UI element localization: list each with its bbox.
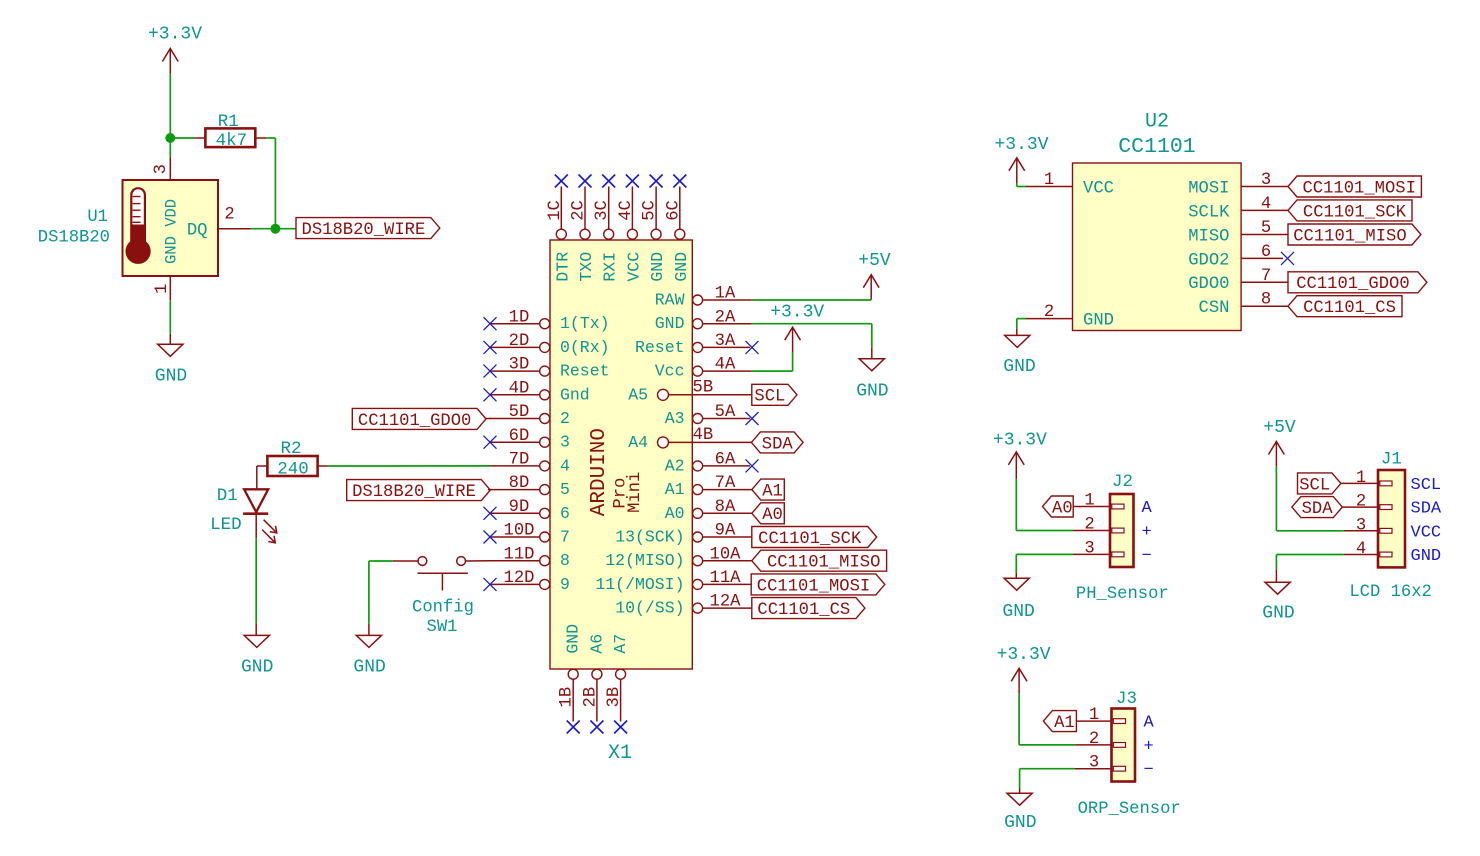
svg-text:6: 6 <box>560 504 570 523</box>
wire U2 VCC to +3.3V <box>1017 183 1026 187</box>
svg-text:GND: GND <box>1003 357 1035 377</box>
svg-text:A5: A5 <box>628 385 648 404</box>
svg-text:12D: 12D <box>504 569 535 588</box>
svg-text:+: + <box>1144 737 1154 756</box>
svg-text:4: 4 <box>560 456 570 475</box>
U2 pin 5 (MISO) <box>1188 219 1288 246</box>
svg-text:A0: A0 <box>762 506 783 525</box>
U2 pin 2 (GND) <box>1026 303 1114 331</box>
svg-text:GDO0: GDO0 <box>1188 275 1229 294</box>
svg-text:3D: 3D <box>509 356 530 375</box>
wire SW1 to GND <box>369 561 393 635</box>
svg-text:+3.3V: +3.3V <box>770 303 824 323</box>
resistor R2 <box>257 439 328 480</box>
svg-text:SCL: SCL <box>754 388 785 407</box>
resistor R1 <box>194 112 266 151</box>
svg-text:2: 2 <box>1084 516 1094 535</box>
X1 pin 7A (A1) <box>665 474 752 499</box>
wire J2 pin2 to +3.3V <box>1016 479 1110 531</box>
svg-text:GND: GND <box>353 658 385 678</box>
svg-text:Reset: Reset <box>635 338 685 357</box>
svg-text:4k7: 4k7 <box>216 131 248 151</box>
svg-text:DS18B20_WIRE: DS18B20_WIRE <box>302 221 426 240</box>
connector J2 PH_Sensor <box>1076 472 1169 604</box>
svg-text:2: 2 <box>1356 493 1366 512</box>
svg-text:PH_Sensor: PH_Sensor <box>1076 585 1169 604</box>
svg-text:10D: 10D <box>504 522 535 541</box>
X1 pin 8D (5) <box>490 474 570 499</box>
svg-text:4D: 4D <box>509 379 530 398</box>
svg-text:DS18B20_WIRE: DS18B20_WIRE <box>352 483 476 502</box>
U2 pin 3 (MOSI) <box>1188 171 1288 198</box>
LED D1 <box>210 486 277 543</box>
wire J2 pin3 to ground <box>1016 554 1110 578</box>
ground right of Arduino <box>856 359 888 402</box>
svg-text:MISO: MISO <box>1188 227 1229 246</box>
svg-text:5D: 5D <box>509 403 530 422</box>
X1 pin 12A (10(/SS)) <box>615 593 752 618</box>
svg-text:9: 9 <box>560 575 570 594</box>
svg-text:1B: 1B <box>558 687 577 708</box>
svg-text:5: 5 <box>1261 219 1271 238</box>
svg-text:CC1101_CS: CC1101_CS <box>1303 299 1396 318</box>
wire J1 pin3 to +5V <box>1276 466 1378 530</box>
power flag +3.3V (U2) <box>994 135 1048 183</box>
svg-text:GND: GND <box>1411 547 1442 566</box>
svg-text:GND: GND <box>241 658 273 678</box>
connector J1 LCD 16x2 <box>1349 450 1442 603</box>
svg-text:A: A <box>1142 499 1153 518</box>
U2 pin 1 (VCC) <box>1026 171 1114 198</box>
svg-text:CC1101_MISO: CC1101_MISO <box>767 554 880 573</box>
svg-text:5B: 5B <box>693 378 714 397</box>
svg-text:SDA: SDA <box>1302 500 1334 519</box>
X1 pin 2A (GND) <box>655 308 752 333</box>
power flag +5V (RAW) <box>858 251 891 299</box>
svg-text:J2: J2 <box>1112 472 1133 492</box>
global label CC1101_MISO (10A) <box>752 550 887 572</box>
global label CC1101_GDO0 (U2) <box>1288 272 1427 294</box>
svg-text:A7: A7 <box>611 634 630 654</box>
svg-text:CC1101_MOSI: CC1101_MOSI <box>1302 179 1415 198</box>
ground below SW1 <box>353 635 385 677</box>
svg-text:VCC: VCC <box>624 252 643 282</box>
svg-text:1: 1 <box>1044 171 1054 190</box>
svg-text:CC1101_CS: CC1101_CS <box>757 601 850 620</box>
svg-text:4: 4 <box>1261 195 1271 214</box>
svg-text:240: 240 <box>277 459 309 479</box>
svg-text:7D: 7D <box>509 451 530 470</box>
X1 pin 4C (VCC) <box>617 175 644 282</box>
svg-text:1: 1 <box>153 284 172 294</box>
wire junction to R1 <box>170 137 194 139</box>
svg-text:6D: 6D <box>509 427 530 446</box>
svg-text:A1: A1 <box>762 483 783 502</box>
connector J3 ORP_Sensor <box>1078 689 1181 819</box>
X1 pin 9A (13(SCK)) <box>615 522 752 547</box>
ground below U1 <box>155 344 187 386</box>
svg-text:Mini: Mini <box>626 472 645 513</box>
global label A1 (7A) <box>752 479 785 501</box>
X1 pin 4D (Gnd) <box>484 379 590 404</box>
svg-text:GND: GND <box>1262 603 1294 623</box>
svg-text:J3: J3 <box>1116 689 1137 709</box>
global label CC1101_CS (U2) <box>1288 296 1402 318</box>
ground below J2 <box>1002 578 1034 622</box>
svg-text:CC1101_GDO0: CC1101_GDO0 <box>358 412 471 431</box>
svg-text:U1: U1 <box>87 208 108 227</box>
global label CC1101_MISO (U2) <box>1288 224 1421 246</box>
svg-text:GND: GND <box>648 252 667 282</box>
svg-text:3: 3 <box>152 164 171 174</box>
X1 pin 5C (GND) <box>641 175 668 282</box>
svg-text:+5V: +5V <box>858 251 891 271</box>
svg-text:DQ: DQ <box>187 221 208 240</box>
X1 pin 11A (11(/MOSI)) <box>595 569 751 594</box>
ground below U2 pin 2 <box>1003 335 1035 377</box>
X1 pin 3B (A7) <box>605 634 630 734</box>
svg-text:SCL: SCL <box>1411 476 1442 495</box>
X1 pin 2C (TXO) <box>570 175 597 282</box>
svg-text:GND VDD: GND VDD <box>162 199 180 264</box>
svg-text:6C: 6C <box>664 200 683 221</box>
power flag +3.3V (J3) <box>997 645 1051 693</box>
svg-text:VCC: VCC <box>1411 523 1442 542</box>
X1 pin 5D (2) <box>490 403 570 428</box>
svg-text:1: 1 <box>1356 469 1366 488</box>
X1 pin 11D (8) <box>490 545 570 570</box>
X1 pin 5B (A5) <box>628 378 752 404</box>
X1 pin 8A (A0) <box>665 498 752 523</box>
svg-text:8: 8 <box>560 551 570 570</box>
svg-text:A2: A2 <box>665 456 685 475</box>
svg-text:−: − <box>1142 547 1152 566</box>
svg-text:GND: GND <box>1083 312 1114 331</box>
global label A0 (J2) <box>1043 496 1111 518</box>
global label A0 (8A) <box>752 503 785 525</box>
svg-text:0(Rx): 0(Rx) <box>560 338 610 357</box>
svg-text:Config: Config <box>412 599 474 618</box>
global label SDA (A4) <box>751 432 803 454</box>
svg-text:SCLK: SCLK <box>1188 203 1230 222</box>
svg-text:ORP_Sensor: ORP_Sensor <box>1078 800 1181 819</box>
X1 pin 7D (4) <box>490 451 570 476</box>
U2 pin 4 (SCLK) <box>1188 195 1288 222</box>
svg-text:8D: 8D <box>509 474 530 493</box>
X1 pin 3D (Reset) <box>484 356 610 381</box>
svg-text:Reset: Reset <box>560 362 610 381</box>
svg-text:8: 8 <box>1261 291 1271 310</box>
global label A1 (J3) <box>1043 711 1111 733</box>
global label DS18B20_WIRE (to pin 8D) <box>347 480 491 502</box>
svg-text:GND: GND <box>564 624 583 654</box>
svg-text:DTR: DTR <box>553 252 572 282</box>
svg-text:ARDUINO: ARDUINO <box>588 428 611 516</box>
X1 pin 1A (RAW) <box>655 285 752 310</box>
svg-text:CSN: CSN <box>1199 299 1230 318</box>
global label SDA (J1) <box>1292 497 1378 519</box>
svg-text:+3.3V: +3.3V <box>148 25 202 45</box>
svg-text:9D: 9D <box>509 498 530 517</box>
svg-text:2B: 2B <box>581 687 600 708</box>
svg-text:A0: A0 <box>1052 499 1073 518</box>
svg-text:D1: D1 <box>217 486 238 506</box>
svg-text:6: 6 <box>1261 243 1271 262</box>
wire RAW to +5V <box>752 299 871 300</box>
svg-text:12(MISO): 12(MISO) <box>605 551 684 570</box>
svg-text:2D: 2D <box>509 332 530 351</box>
svg-text:CC1101: CC1101 <box>1118 135 1195 159</box>
svg-text:GDO2: GDO2 <box>1188 251 1229 270</box>
svg-text:3: 3 <box>1089 754 1099 773</box>
wire J3 pin2 to +3.3V <box>1019 693 1111 745</box>
svg-text:SCL: SCL <box>1299 476 1330 495</box>
X1 pin 6D (3) <box>484 427 570 452</box>
wire 2A GND to ground <box>752 324 872 359</box>
svg-text:GND: GND <box>655 314 685 333</box>
svg-text:7: 7 <box>1261 267 1271 286</box>
X1 pin 1D (1(Tx)) <box>484 308 610 333</box>
svg-text:GND: GND <box>672 252 691 282</box>
svg-text:CC1101_MISO: CC1101_MISO <box>1293 227 1406 246</box>
svg-text:3B: 3B <box>605 687 624 708</box>
svg-text:GND: GND <box>155 366 187 386</box>
wire R2 to LED D1 anode <box>256 466 258 489</box>
wire U1 pin1 to GND <box>169 300 171 344</box>
svg-text:5: 5 <box>560 480 570 499</box>
global label CC1101_GDO0 (to pin 5D) <box>352 408 491 430</box>
svg-text:4C: 4C <box>617 200 636 221</box>
MCU module X1 Arduino Pro Mini <box>550 240 692 765</box>
X1 pin 3C (RXI) <box>593 175 620 282</box>
power flag +3.3V (J2) <box>993 431 1047 479</box>
wire U2 GND to ground <box>1017 319 1026 336</box>
svg-text:GND: GND <box>1004 813 1036 833</box>
svg-text:+3.3V: +3.3V <box>997 645 1051 665</box>
wire D1 cathode to GND <box>255 514 257 636</box>
X1 pin 3A (Reset) <box>635 332 759 357</box>
no-connect U2 GDO2 <box>1281 252 1294 265</box>
svg-text:5C: 5C <box>641 200 660 221</box>
svg-text:RAW: RAW <box>655 291 685 310</box>
U2 pin 6 (GDO2) <box>1188 243 1283 270</box>
svg-text:GND: GND <box>1002 602 1034 622</box>
wire J3 pin3 to ground <box>1020 769 1112 794</box>
wire Vcc 4A to +3.3V <box>752 352 793 371</box>
svg-text:A: A <box>1144 714 1155 733</box>
svg-text:1D: 1D <box>509 308 530 327</box>
svg-text:3: 3 <box>1261 171 1271 190</box>
svg-text:A1: A1 <box>665 480 685 499</box>
svg-text:11D: 11D <box>504 545 535 564</box>
svg-text:A3: A3 <box>665 409 685 428</box>
X1 pin 6A (A2) <box>665 451 759 476</box>
global label CC1101_SCK (U2) <box>1288 200 1412 222</box>
svg-text:CC1101_SCK: CC1101_SCK <box>1303 203 1407 222</box>
svg-text:7: 7 <box>560 528 570 547</box>
X1 pin 5A (A3) <box>665 403 759 428</box>
X1 pin 1B (GND) <box>558 624 583 734</box>
svg-text:2: 2 <box>1089 730 1099 749</box>
svg-text:12A: 12A <box>710 593 742 612</box>
global label SCL (J1) <box>1298 473 1379 495</box>
global label CC1101_CS (12A) <box>752 598 865 620</box>
svg-text:1: 1 <box>1089 706 1099 725</box>
svg-text:Gnd: Gnd <box>560 385 590 404</box>
X1 pin 1C (DTR) <box>546 175 573 282</box>
svg-text:2: 2 <box>1044 303 1054 322</box>
svg-text:+3.3V: +3.3V <box>994 135 1048 155</box>
svg-text:A4: A4 <box>628 433 648 452</box>
svg-text:U2: U2 <box>1145 110 1169 133</box>
U2 pin 8 (CSN) <box>1199 291 1288 318</box>
svg-text:1: 1 <box>1084 492 1094 511</box>
X1 pin 9D (6) <box>484 498 570 523</box>
svg-text:2C: 2C <box>570 200 589 221</box>
wire J1 pin4 to ground <box>1276 555 1378 583</box>
svg-text:4B: 4B <box>693 426 714 445</box>
U1 pin 1 (GND) <box>153 276 172 300</box>
svg-text:X1: X1 <box>608 742 632 765</box>
svg-text:3: 3 <box>1084 539 1094 558</box>
svg-text:TXO: TXO <box>577 252 596 282</box>
svg-text:13(SCK): 13(SCK) <box>615 528 684 547</box>
svg-text:2: 2 <box>224 205 234 224</box>
temperature sensor U1 DS18B20 <box>38 157 251 300</box>
svg-text:3C: 3C <box>593 200 612 221</box>
svg-text:1C: 1C <box>546 200 565 221</box>
svg-text:8A: 8A <box>715 498 736 517</box>
X1 pin 2B (A6) <box>581 634 606 734</box>
RF module U2 CC1101 <box>1073 110 1242 330</box>
svg-text:Vcc: Vcc <box>655 362 685 381</box>
global label CC1101_MOSI (U2) <box>1288 176 1421 198</box>
junction at R1 left / +3.3V <box>165 133 175 143</box>
svg-text:2: 2 <box>560 409 570 428</box>
svg-text:RXI: RXI <box>601 252 620 282</box>
svg-text:LED: LED <box>210 515 242 535</box>
ground below J3 <box>1004 793 1036 833</box>
X1 pin 6C (GND) <box>664 175 691 282</box>
power flag +3.3V (Vcc) <box>770 303 824 353</box>
svg-text:SDA: SDA <box>762 435 794 454</box>
switch SW1 Config <box>393 557 490 637</box>
ground below D1 <box>241 635 273 677</box>
svg-text:−: − <box>1144 761 1154 780</box>
svg-text:SW1: SW1 <box>427 618 458 637</box>
svg-text:R2: R2 <box>280 439 301 459</box>
svg-text:11(/MOSI): 11(/MOSI) <box>595 575 684 594</box>
X1 pin 10D (7) <box>484 522 570 547</box>
svg-text:A6: A6 <box>587 634 606 654</box>
svg-text:CC1101_GDO0: CC1101_GDO0 <box>1296 275 1409 294</box>
X1 pin 4A (Vcc) <box>655 356 752 381</box>
wire +3.3V to junction and U1 pin 3 <box>169 73 171 157</box>
U1 pin 3 (VDD) <box>152 157 171 180</box>
svg-text:GND: GND <box>856 382 888 402</box>
svg-text:VCC: VCC <box>1083 179 1114 198</box>
global label SCL (A5) <box>752 384 797 406</box>
X1 pin 12D (9) <box>484 569 570 594</box>
X1 pin 10A (12(MISO)) <box>605 545 752 570</box>
global label CC1101_SCK (9A) <box>752 527 877 549</box>
U2 pin 7 (GDO0) <box>1188 267 1288 294</box>
svg-text:LCD 16x2: LCD 16x2 <box>1349 583 1432 602</box>
power flag +3.3V (U1 supply) <box>148 25 202 74</box>
svg-text:MOSI: MOSI <box>1188 179 1229 198</box>
svg-text:SDA: SDA <box>1411 500 1442 519</box>
U1 pin 2 (DQ) <box>218 205 251 228</box>
wire R1 to DS18B20_WIRE node <box>251 138 296 229</box>
junction at DQ / DS18B20_WIRE <box>270 224 280 234</box>
svg-text:10(/SS): 10(/SS) <box>615 599 684 618</box>
svg-text:CC1101_MOSI: CC1101_MOSI <box>757 577 870 596</box>
svg-text:+5V: +5V <box>1263 418 1296 438</box>
X1 pin 2D (0(Rx)) <box>484 332 610 357</box>
global label DS18B20_WIRE (top) <box>296 218 440 240</box>
svg-text:+3.3V: +3.3V <box>993 431 1047 451</box>
ground below J1 <box>1262 582 1294 623</box>
svg-text:J1: J1 <box>1381 450 1402 470</box>
svg-text:A1: A1 <box>1054 714 1075 733</box>
svg-text:+: + <box>1142 523 1152 542</box>
global label CC1101_MOSI (11A) <box>751 574 885 596</box>
X1 pin 4B (A4) <box>628 426 752 452</box>
svg-text:4: 4 <box>1356 540 1366 559</box>
svg-text:DS18B20: DS18B20 <box>38 229 110 248</box>
svg-text:A0: A0 <box>665 504 685 523</box>
svg-text:3: 3 <box>560 433 570 452</box>
svg-text:CC1101_SCK: CC1101_SCK <box>758 530 862 549</box>
svg-text:3: 3 <box>1356 516 1366 535</box>
wire R2 to Arduino pin 7D <box>328 465 490 467</box>
svg-text:R1: R1 <box>218 112 239 132</box>
svg-text:1(Tx): 1(Tx) <box>560 314 610 333</box>
power flag +5V (J1) <box>1263 418 1296 466</box>
